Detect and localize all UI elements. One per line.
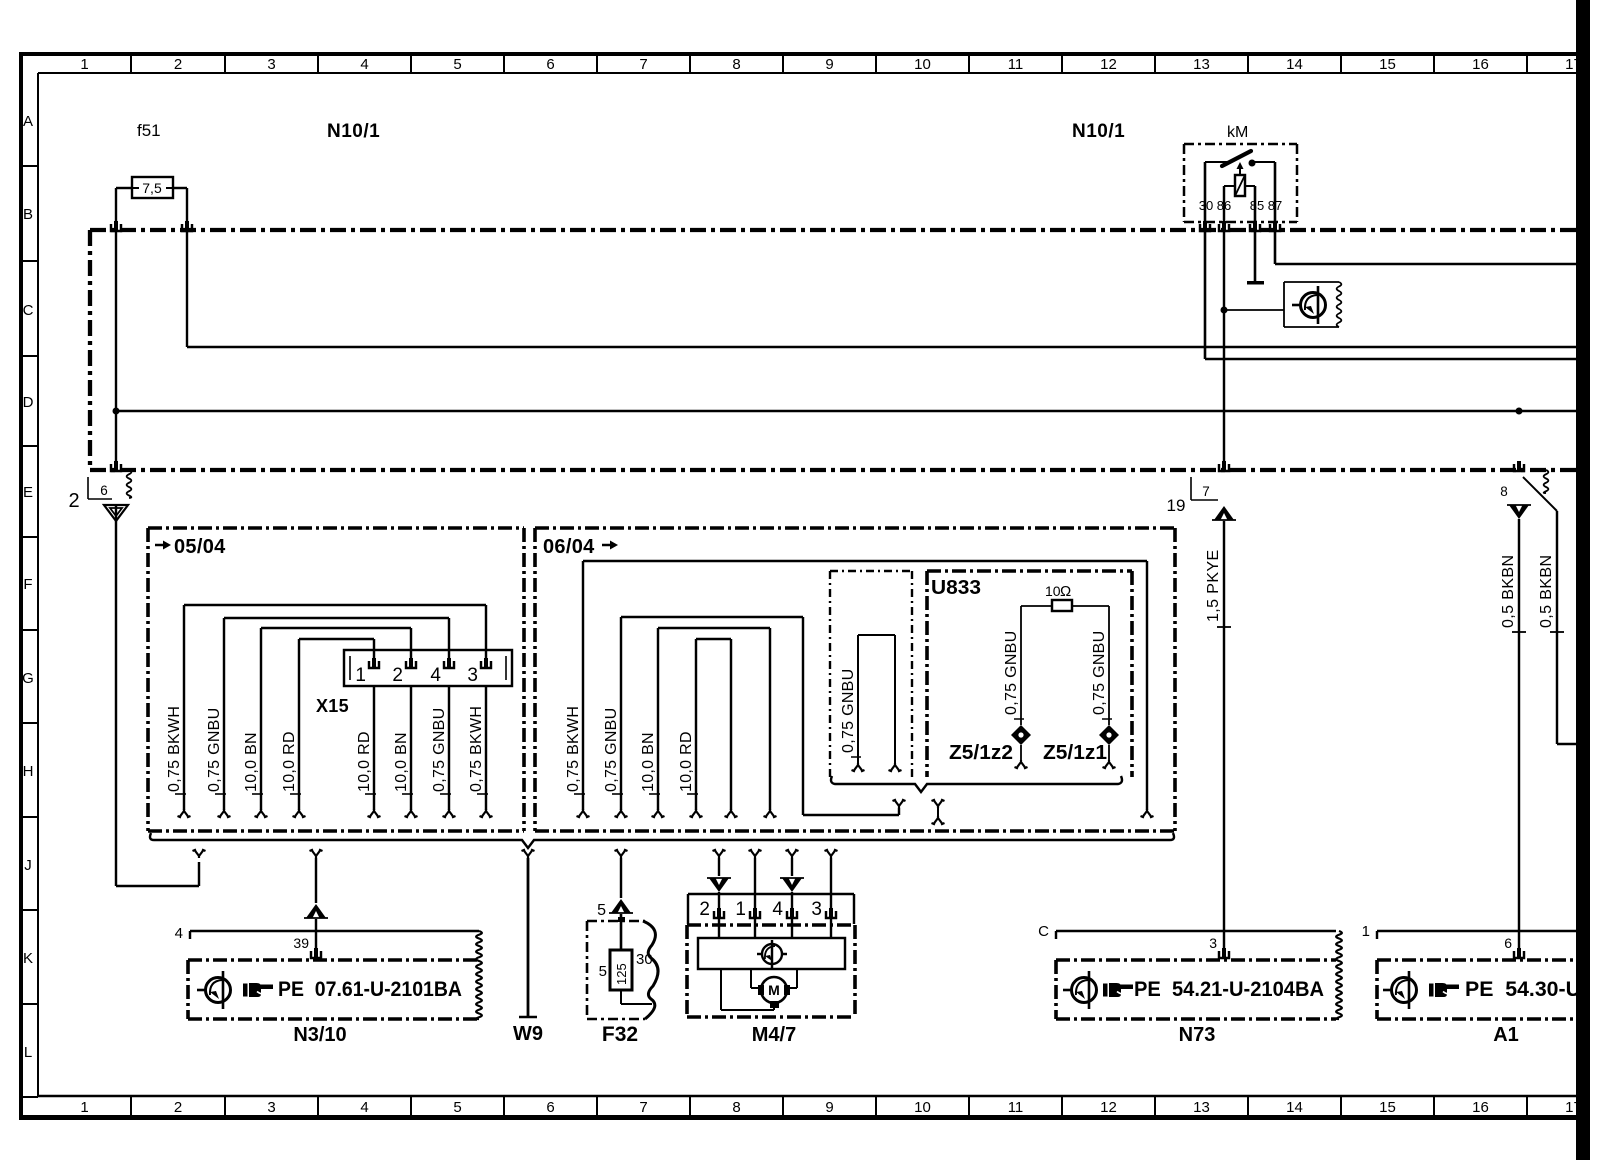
svg-text:H: H	[23, 763, 34, 780]
svg-text:0,75 GNBU: 0,75 GNBU	[1003, 630, 1020, 715]
svg-text:1,5 PKYE: 1,5 PKYE	[1205, 549, 1222, 622]
svg-text:16: 16	[1472, 56, 1489, 73]
svg-text:Z5/1z2: Z5/1z2	[949, 742, 1013, 764]
svg-text:10,0 RD: 10,0 RD	[356, 731, 373, 792]
svg-text:0,5 BKBN: 0,5 BKBN	[1500, 555, 1517, 628]
svg-text:0,75 GNBU: 0,75 GNBU	[206, 707, 223, 792]
svg-text:0,75 GNBU: 0,75 GNBU	[603, 707, 620, 792]
svg-text:N10/1: N10/1	[1072, 121, 1125, 142]
svg-text:F32: F32	[602, 1023, 638, 1046]
svg-text:1: 1	[80, 1099, 88, 1116]
svg-text:0,75 GNBU: 0,75 GNBU	[840, 668, 857, 753]
svg-text:2: 2	[174, 1099, 182, 1116]
svg-text:0,75 BKWH: 0,75 BKWH	[468, 706, 485, 792]
svg-text:16: 16	[1472, 1099, 1489, 1116]
svg-text:14: 14	[1286, 1099, 1303, 1116]
svg-text:8: 8	[732, 56, 740, 73]
svg-text:5: 5	[599, 963, 607, 980]
svg-text:0,5 BKBN: 0,5 BKBN	[1538, 555, 1555, 628]
svg-text:8: 8	[1500, 484, 1508, 499]
svg-text:2: 2	[699, 899, 710, 920]
svg-text:K: K	[23, 950, 33, 967]
svg-text:2: 2	[392, 665, 403, 686]
svg-text:3: 3	[811, 899, 822, 920]
svg-text:0,75 BKWH: 0,75 BKWH	[565, 706, 582, 792]
svg-text:PE 54.21-U-2104BA: PE 54.21-U-2104BA	[1134, 978, 1324, 1001]
svg-text:J: J	[24, 857, 32, 874]
svg-text:7: 7	[639, 1099, 647, 1116]
svg-text:1: 1	[735, 899, 746, 920]
svg-text:N10/1: N10/1	[327, 121, 380, 142]
svg-text:2: 2	[174, 56, 182, 73]
svg-text:PE 54.30-U: PE 54.30-U	[1465, 978, 1581, 1001]
svg-text:05/04: 05/04	[174, 536, 226, 558]
svg-text:85 87: 85 87	[1250, 198, 1283, 213]
svg-text:G: G	[22, 670, 34, 687]
svg-text:10,0 BN: 10,0 BN	[243, 732, 260, 792]
svg-text:5: 5	[453, 56, 461, 73]
svg-text:0,75 GNBU: 0,75 GNBU	[431, 707, 448, 792]
svg-text:15: 15	[1379, 56, 1396, 73]
svg-text:12: 12	[1100, 1099, 1117, 1116]
svg-text:10,0 RD: 10,0 RD	[678, 731, 695, 792]
svg-text:4: 4	[360, 1099, 368, 1116]
svg-text:F: F	[23, 576, 32, 593]
svg-text:X15: X15	[316, 696, 349, 716]
svg-text:N73: N73	[1179, 1024, 1216, 1046]
svg-text:14: 14	[1286, 56, 1303, 73]
svg-text:D: D	[23, 394, 34, 411]
svg-text:B: B	[23, 206, 33, 223]
svg-text:4: 4	[175, 925, 183, 942]
svg-text:7: 7	[1202, 484, 1210, 499]
svg-text:kM: kM	[1227, 124, 1248, 141]
svg-text:1: 1	[1362, 923, 1370, 940]
svg-text:8: 8	[732, 1099, 740, 1116]
svg-text:Z5/1z1: Z5/1z1	[1043, 742, 1107, 764]
svg-text:39: 39	[293, 935, 309, 951]
svg-text:10: 10	[914, 1099, 931, 1116]
svg-text:f51: f51	[137, 121, 161, 140]
svg-text:3: 3	[1209, 935, 1217, 951]
svg-text:U833: U833	[931, 577, 981, 599]
svg-text:19: 19	[1167, 496, 1186, 515]
svg-text:C: C	[1038, 923, 1049, 940]
svg-text:125: 125	[614, 963, 629, 985]
svg-text:6: 6	[546, 56, 554, 73]
svg-text:4: 4	[772, 899, 783, 920]
svg-text:4: 4	[430, 665, 441, 686]
svg-text:1: 1	[80, 56, 88, 73]
svg-text:A: A	[23, 113, 33, 130]
svg-text:9: 9	[825, 56, 833, 73]
svg-text:6: 6	[546, 1099, 554, 1116]
svg-text:30: 30	[636, 951, 653, 968]
svg-text:10: 10	[914, 56, 931, 73]
svg-text:E: E	[23, 484, 33, 501]
svg-text:4: 4	[360, 56, 368, 73]
svg-text:2: 2	[68, 490, 79, 512]
svg-text:13: 13	[1193, 56, 1210, 73]
svg-text:N3/10: N3/10	[293, 1024, 346, 1046]
svg-text:0,75 BKWH: 0,75 BKWH	[166, 706, 183, 792]
svg-text:5: 5	[453, 1099, 461, 1116]
svg-text:M4/7: M4/7	[752, 1024, 796, 1046]
svg-text:7: 7	[639, 56, 647, 73]
svg-text:PE 07.61-U-2101BA: PE 07.61-U-2101BA	[278, 978, 462, 1001]
svg-text:7,5: 7,5	[142, 180, 162, 196]
svg-text:30 86: 30 86	[1199, 198, 1232, 213]
svg-text:12: 12	[1100, 56, 1117, 73]
svg-text:6: 6	[100, 483, 108, 498]
svg-text:10: 10	[1045, 583, 1061, 599]
svg-text:1: 1	[355, 665, 366, 686]
svg-text:6: 6	[1504, 935, 1512, 951]
svg-text:10,0 BN: 10,0 BN	[640, 732, 657, 792]
svg-text:11: 11	[1008, 1099, 1024, 1116]
svg-text:M: M	[768, 982, 780, 998]
svg-text:10,0 BN: 10,0 BN	[393, 732, 410, 792]
svg-text:Ω: Ω	[1060, 583, 1071, 600]
svg-text:9: 9	[825, 1099, 833, 1116]
svg-text:06/04: 06/04	[543, 536, 595, 558]
svg-text:C: C	[23, 302, 34, 319]
svg-text:0,75 GNBU: 0,75 GNBU	[1091, 630, 1108, 715]
svg-text:11: 11	[1008, 56, 1024, 73]
svg-text:15: 15	[1379, 1099, 1396, 1116]
svg-text:W9: W9	[513, 1023, 543, 1045]
svg-text:3: 3	[467, 665, 478, 686]
svg-text:10,0 RD: 10,0 RD	[281, 731, 298, 792]
svg-text:A1: A1	[1493, 1024, 1519, 1046]
svg-text:3: 3	[267, 1099, 275, 1116]
svg-text:3: 3	[267, 56, 275, 73]
svg-text:5: 5	[597, 902, 606, 919]
svg-text:13: 13	[1193, 1099, 1210, 1116]
svg-text:L: L	[24, 1044, 32, 1061]
